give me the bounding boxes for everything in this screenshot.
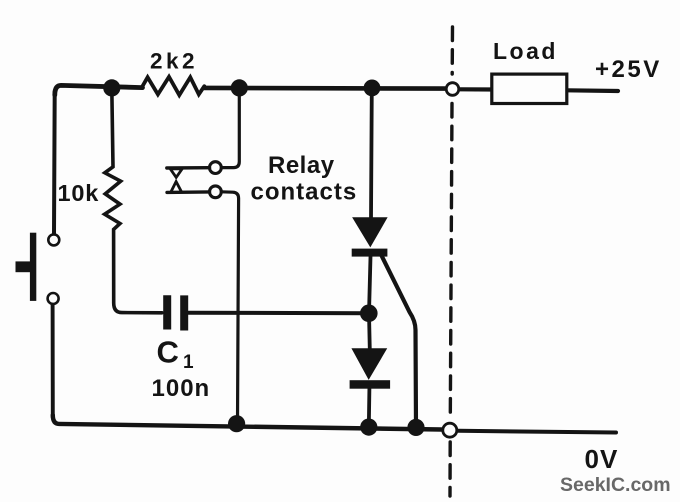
wire: terminal to Load (460, 87, 494, 91)
wire: left rail down to pushbutton (52, 92, 57, 234)
svg-text:2k2: 2k2 (150, 49, 198, 74)
wire: 0V rail, right segment (458, 431, 616, 433)
svg-text:SeekIC.com: SeekIC.com (560, 474, 671, 496)
load box (492, 74, 567, 103)
thyristor D1 (352, 88, 416, 428)
wire: anode from +25V node (369, 88, 374, 219)
node: 2k2/relay contact junction (231, 79, 248, 96)
capacitor C1 (167, 295, 184, 330)
svg-text:0V: 0V (585, 444, 619, 474)
resistor 10k with leads (105, 88, 162, 313)
wire: anode from node (367, 313, 372, 350)
wire: +25V rail, middle segment (204, 86, 444, 91)
wire: Load to +25V lead (567, 88, 618, 93)
svg-text:Relay: Relay (268, 152, 335, 179)
node: anode junction on +25V rail (364, 80, 381, 97)
node: gate lead on 0V rail (407, 419, 424, 436)
node: diode cathode on 0V rail (360, 419, 377, 436)
pushbutton switch S1 (16, 233, 60, 304)
wire: gate lead to 0V rail (381, 254, 417, 428)
relay contacts K1 (167, 88, 240, 424)
wire: cathode to node (369, 257, 371, 314)
resistor 2k2 (143, 77, 205, 95)
node: C1/cathode junction (360, 305, 378, 323)
wire: 0V rail, left segment with corner (53, 415, 442, 430)
upper contact arrow (170, 169, 182, 178)
terminal: 0V boundary (443, 423, 457, 437)
wire: cathode to 0V rail (367, 389, 371, 427)
lower contact arrow (171, 182, 182, 192)
svg-text:100n: 100n (152, 375, 211, 402)
wire: top node down to upper contact (221, 88, 239, 168)
dashed load-boundary line, upper segment (451, 27, 455, 74)
wire: capacitor to cathode node (189, 311, 369, 316)
svg-text:Load: Load (493, 38, 558, 64)
wire: +25V rail, left segment with corner (55, 85, 143, 95)
wire: lower contact down to 0V rail (221, 192, 238, 424)
dashed load-boundary line, middle segment (450, 104, 452, 418)
wire: lower contact arm (167, 190, 210, 194)
node: relay contact on 0V rail (228, 415, 245, 432)
wire: pushbutton to 0V rail (51, 305, 55, 417)
svg-text:contacts: contacts (251, 179, 358, 206)
node: 2k2/10k/+25V junction (103, 79, 120, 96)
svg-text:10k: 10k (58, 180, 100, 206)
lower contact terminal circle (210, 186, 222, 198)
svg-text:+25V: +25V (595, 56, 662, 83)
svg-text:C: C (157, 335, 179, 370)
diode D2 (350, 313, 391, 427)
terminal: +25V boundary (446, 83, 459, 96)
dashed load-boundary line, lower segment (448, 442, 452, 496)
svg-text:1: 1 (183, 352, 194, 373)
upper contact terminal circle (210, 162, 222, 174)
wire: upper contact arm (167, 166, 210, 170)
